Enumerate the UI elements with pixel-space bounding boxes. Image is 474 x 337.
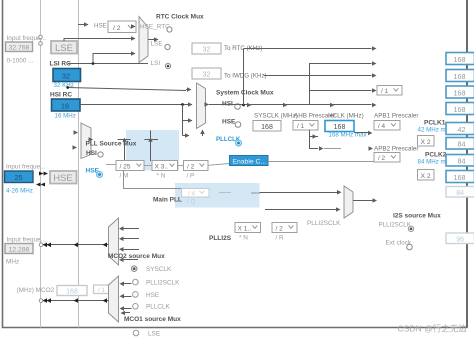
peripheral box 168 row4 — [446, 103, 474, 115]
svg-text:LSI: LSI — [151, 60, 161, 67]
peripheral box 42 — [446, 123, 474, 135]
svg-text:HSE: HSE — [146, 292, 159, 299]
wire down to APB2 — [310, 137, 319, 149]
wire HSI from box to sys mux — [81, 104, 191, 106]
svg-text:84: 84 — [458, 140, 466, 149]
svg-text:/ 2: / 2 — [276, 225, 284, 232]
input box 32.768 — [6, 42, 33, 52]
peripheral box 84 row6 — [446, 138, 474, 150]
dropdown cortex /1 — [377, 86, 402, 96]
radio HSI pll — [98, 152, 103, 157]
wire HCLK to APB1 — [354, 132, 368, 134]
wire PLLI2S to I2S mux input1 — [260, 192, 338, 194]
svg-text:System Clock Mux: System Clock Mux — [216, 90, 274, 97]
svg-text:MHz: MHz — [6, 259, 19, 266]
svg-text:PLL Source Mux: PLL Source Mux — [86, 141, 137, 148]
radio LSE — [165, 44, 170, 49]
MCO1 mux trapezoid — [109, 276, 119, 322]
wire LSI — [68, 63, 148, 65]
svg-text:/ 25: / 25 — [120, 163, 131, 170]
svg-text:LSE: LSE — [151, 41, 163, 48]
svg-text:/ 1: / 1 — [98, 287, 105, 294]
svg-text:Enable C...: Enable C... — [233, 158, 267, 165]
svg-text:X 3..: X 3.. — [155, 163, 169, 170]
wire PLLCLK long right — [268, 161, 374, 163]
svg-text:PLLI2SCLK: PLLI2SCLK — [379, 222, 412, 229]
MCO2 input wires — [119, 226, 139, 262]
HCLK box 168 highlighted — [325, 121, 354, 132]
radio PLLCLK selected — [236, 140, 242, 146]
svg-text:APB2 Prescaler: APB2 Prescaler — [374, 146, 418, 153]
wire ext clock to I2S mux input2 — [265, 209, 336, 211]
pin circle OSC32_OUT — [39, 42, 43, 46]
svg-text:* N: * N — [157, 173, 166, 180]
peripheral box 168 row2 — [446, 70, 474, 82]
MCO1 input wires — [120, 282, 132, 316]
svg-text:CSDN @行之无边: CSDN @行之无边 — [398, 324, 468, 334]
chip edge guide line x=78 — [78, 0, 80, 328]
svg-text:LSE: LSE — [148, 331, 160, 337]
wire SYSCLK long — [209, 104, 372, 106]
svg-text:96: 96 — [456, 236, 464, 243]
peripheral box 84 grayed — [446, 187, 474, 198]
svg-text:/ 2: / 2 — [113, 25, 121, 32]
svg-text:HSI RC: HSI RC — [50, 92, 72, 99]
dropdown /M 25 — [116, 161, 144, 171]
To RTC box 32 — [192, 43, 221, 54]
svg-text:4-26 MHz: 4-26 MHz — [6, 188, 33, 195]
SYSCLK box 168 — [253, 121, 281, 132]
input box 12.288 — [5, 244, 33, 254]
pin circle OSC32_IN — [39, 35, 43, 39]
svg-text:X 2: X 2 — [421, 139, 431, 146]
pin circle MCO2 — [39, 243, 43, 247]
dropdown /Q 4 grayed — [182, 189, 210, 198]
wire T-bar above N divider — [144, 131, 158, 162]
PLL block background B — [175, 183, 260, 208]
LSE box — [51, 41, 77, 54]
svg-text:168: 168 — [454, 105, 466, 114]
svg-text:32: 32 — [203, 47, 211, 54]
RTC clock mux trapezoid — [139, 17, 148, 63]
svg-text:MCO2 source Mux: MCO2 source Mux — [108, 253, 165, 260]
arrowheads along SYSCLK wire — [247, 103, 377, 108]
svg-text:16: 16 — [61, 102, 69, 111]
wire To IWDG row — [264, 75, 372, 77]
radio Ext clock — [407, 244, 413, 250]
dropdown AHB /1 — [293, 121, 318, 131]
wire Q grayed stubs — [219, 192, 260, 195]
peripheral box 168 row3 — [446, 86, 474, 98]
svg-text:LSE: LSE — [55, 43, 73, 54]
LSI box 32 — [53, 69, 81, 82]
wire stub into M divider — [106, 164, 116, 166]
wire I2S mux output — [353, 200, 373, 202]
frame left border — [2, 0, 4, 328]
wire into sys mux input3 — [183, 120, 193, 122]
svg-text:12.288: 12.288 — [9, 246, 30, 253]
junction SYSCLK — [242, 104, 245, 107]
svg-text:168: 168 — [261, 124, 273, 131]
wire N to P — [178, 165, 184, 167]
radio HSE mco — [133, 292, 139, 298]
dropdown /P 2 — [184, 161, 209, 171]
junction LSI — [92, 62, 95, 65]
radio HSI sysmux — [235, 104, 241, 110]
svg-text:RTC Clock Mux: RTC Clock Mux — [156, 14, 204, 21]
radio SYSCLK selected — [131, 266, 137, 272]
PLL block background A — [126, 130, 179, 171]
svg-text:HSE: HSE — [94, 23, 107, 30]
svg-text:HSI: HSI — [86, 150, 97, 157]
svg-text:42: 42 — [458, 125, 466, 134]
peripheral box 84 row7 — [446, 155, 474, 167]
svg-text:MCO1 source Mux: MCO1 source Mux — [124, 316, 181, 323]
svg-text:/ 2: / 2 — [378, 155, 386, 162]
wire P output to enable button — [208, 164, 230, 166]
dropdown PLLI2S N — [235, 223, 261, 233]
svg-text:168: 168 — [454, 88, 466, 97]
svg-text:APB1 Prescaler: APB1 Prescaler — [374, 113, 418, 120]
wire /2 to rtc mux — [133, 26, 135, 28]
svg-text:PLLCLK: PLLCLK — [146, 304, 171, 311]
radio LSE mco1 — [133, 330, 139, 336]
X2 box apb2 — [418, 170, 435, 181]
svg-text:HCLK (MHz): HCLK (MHz) — [328, 113, 364, 120]
HSI box 16 — [52, 99, 81, 111]
peripheral box 96 grayed — [446, 233, 474, 244]
svg-text:84: 84 — [458, 157, 466, 166]
pin circle MCO1 — [39, 299, 43, 303]
svg-text:/ 4: / 4 — [378, 123, 386, 130]
wire Q path down — [124, 171, 182, 189]
svg-text:0-1000 ...: 0-1000 ... — [7, 58, 34, 65]
svg-text:/ 4: / 4 — [188, 190, 196, 197]
svg-text:To IWDG (KHz): To IWDG (KHz) — [224, 73, 267, 80]
wire row y63 — [310, 63, 372, 65]
peripheral box 168 row1 — [446, 53, 474, 65]
To IWDG box 32 — [192, 68, 221, 79]
wire row y90 — [310, 90, 372, 92]
svg-text:/ 2: / 2 — [187, 163, 195, 170]
svg-text:SYSCLK: SYSCLK — [146, 266, 172, 273]
svg-text:SYSCLK (MHz): SYSCLK (MHz) — [254, 113, 298, 120]
wire LSE to rtc mux — [64, 39, 131, 42]
wire AHB to HCLK L — [310, 130, 319, 137]
enable CSS button — [230, 156, 269, 166]
svg-text:PLLI2SCLK: PLLI2SCLK — [146, 279, 180, 286]
chip edge guide line x=40 — [40, 0, 42, 328]
svg-text:Input freque...: Input freque... — [6, 164, 46, 171]
svg-text:Input freque...: Input freque... — [7, 237, 47, 244]
crystal arrows to HSE box — [36, 172, 48, 187]
svg-text:168: 168 — [454, 55, 466, 64]
junction LSE long — [66, 86, 69, 89]
radio PLLI2SCLK mco — [133, 279, 139, 285]
wire PLLCLK up into mux bottom — [202, 130, 204, 136]
svg-text:168: 168 — [454, 72, 466, 81]
dropdown *N X3 — [152, 161, 178, 171]
svg-text:Main PLL: Main PLL — [153, 197, 182, 204]
dropdown /2 rtc — [108, 21, 136, 33]
svg-text:* N: * N — [239, 235, 248, 242]
svg-text:PCLK2: PCLK2 — [425, 152, 447, 159]
chip boundary bus line right — [466, 0, 468, 328]
MCO2 mux trapezoid — [109, 218, 119, 265]
svg-text:PLLI2SCLK: PLLI2SCLK — [307, 220, 341, 227]
dropdown APB1 /4 — [374, 121, 400, 131]
wire SYSCLK out of mux — [206, 104, 209, 106]
frame bottom border — [2, 327, 468, 329]
svg-text:32: 32 — [203, 72, 211, 79]
I2S source mux trapezoid — [344, 186, 353, 218]
wire vertical RTC row to SYSCLK junction — [243, 49, 245, 106]
svg-text:X 2: X 2 — [421, 173, 431, 180]
wire LSI branch to rtc mux — [93, 54, 131, 64]
svg-text:PCLK1: PCLK1 — [424, 120, 446, 127]
svg-text:/ P: / P — [187, 173, 195, 180]
peripheral box 168 row8 — [446, 171, 474, 183]
radio PLLI2SCLK selected — [408, 226, 413, 231]
MCO dropdown /1 grayed — [94, 285, 119, 294]
X2 box apb1 — [418, 136, 435, 147]
wire To RTC row — [244, 48, 372, 50]
svg-text:16 MHz: 16 MHz — [55, 113, 76, 120]
svg-text:/ 1: / 1 — [381, 88, 389, 95]
wire vertical to HSE input — [182, 105, 184, 136]
svg-text:32.768: 32.768 — [9, 45, 30, 52]
radio LSI selected — [165, 63, 170, 68]
wire HSI into PLL mux — [76, 132, 78, 134]
svg-text:(MHz) MCO2: (MHz) MCO2 — [17, 287, 55, 294]
HSE box — [50, 171, 77, 184]
svg-text:PLLI2S: PLLI2S — [209, 235, 232, 242]
svg-text:/ R: / R — [276, 235, 285, 242]
bus vertical x309 — [309, 63, 311, 105]
svg-text:X 1..: X 1.. — [238, 225, 252, 232]
svg-text:HSE_RTC: HSE_RTC — [140, 24, 170, 31]
radio HSE pll selected — [97, 172, 103, 178]
wire M to N — [144, 165, 152, 167]
MCO2 output wire — [43, 243, 109, 248]
MCO box 168 grayed — [57, 286, 87, 296]
dropdown PLLI2S R — [272, 223, 297, 233]
wire rtc mux output — [148, 39, 158, 41]
svg-text:HSE: HSE — [53, 173, 73, 184]
radio HSE_RTC — [167, 27, 172, 32]
wire LSE long to system mux — [68, 88, 186, 91]
wire HSE to /2 — [78, 24, 88, 26]
svg-text:/ 1: / 1 — [297, 123, 305, 130]
wire PLL mux output — [91, 139, 93, 141]
dropdown APB2 /2 — [374, 153, 400, 163]
svg-text:84: 84 — [456, 190, 464, 197]
svg-text:32: 32 — [62, 71, 70, 80]
svg-text:I2S source Mux: I2S source Mux — [393, 213, 441, 220]
MCO1 output wire — [43, 298, 109, 303]
svg-text:25: 25 — [15, 173, 23, 182]
svg-text:168: 168 — [334, 124, 346, 131]
radio HSE sysmux — [235, 122, 241, 128]
svg-text:168: 168 — [66, 288, 78, 295]
wire lower arrow — [183, 135, 190, 137]
svg-text:/ Q: / Q — [187, 199, 196, 206]
input box 25 — [5, 171, 34, 183]
radio PLLCLK mco — [133, 304, 139, 310]
wire HSE into PLL mux — [75, 147, 77, 149]
svg-text:HSE: HSE — [222, 119, 236, 126]
wire T-bar above M divider — [118, 138, 131, 161]
system clock mux trapezoid — [197, 83, 206, 129]
PLL source mux trapezoid — [81, 123, 91, 159]
svg-text:LSI RC: LSI RC — [50, 61, 72, 68]
junction HSI wire — [181, 103, 184, 106]
svg-text:168: 168 — [454, 173, 466, 182]
